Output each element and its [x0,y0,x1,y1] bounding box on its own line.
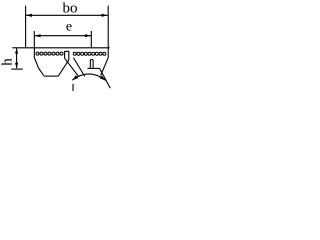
background [0,0,113,91]
svg-text:e: e [66,19,72,34]
wire belt A bottom edge [44,75,59,77]
node e right extension line [90,31,92,48]
node h bottom arrowhead [15,63,18,68]
wire angle dimension left arc [72,74,105,80]
node angle right arrowhead [100,76,106,81]
svg-text:bo: bo [63,1,78,17]
node angle left arrowhead [72,75,78,80]
svg-text:h: h [0,58,16,66]
wire e dimension line [34,35,91,37]
node belt A left wall [34,48,44,76]
node e right arrowhead [85,34,91,37]
node belt B left flank line [73,58,84,77]
wire belt B bottom edge [88,67,100,69]
node belt B right wall [101,58,109,76]
node relief notch arch [90,59,93,68]
wire angle dimension right ray [100,68,111,88]
node belt B cords [73,52,76,55]
wire angle leader line [72,84,74,91]
node b0 left arrowhead [26,14,32,17]
wire band bottom line in gap [64,50,69,52]
node belt A right wall [58,51,69,76]
node belt A cords [36,52,39,55]
node b0 left extension line [25,6,27,48]
node e left arrowhead [34,34,40,37]
wire top surface line [12,47,110,49]
wire b0 dimension line [26,14,108,16]
node b0 right arrowhead [102,14,108,17]
node e left extension line [33,31,35,48]
wire h bottom extension line [11,68,22,70]
node h top arrowhead [15,48,18,53]
wire h dimension line [16,48,18,68]
node belt B left wall [65,51,79,76]
node b0 right extension line [107,6,109,58]
